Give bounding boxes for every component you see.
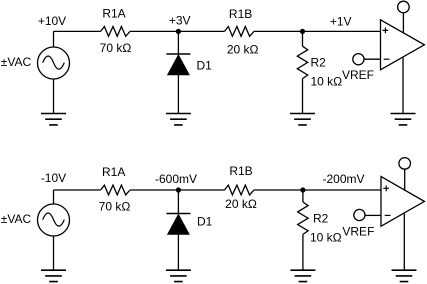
- wire top AC source stub: [53, 31, 55, 47]
- op-amp U1 top: [381, 20, 425, 70]
- svg-text:20 kΩ: 20 kΩ: [227, 43, 259, 57]
- resistor R1A top: [101, 27, 130, 37]
- wire diode D1 bottom to ground: [177, 235, 179, 271]
- resistor R1B bottom: [225, 185, 254, 195]
- svg-text:70 kΩ: 70 kΩ: [100, 41, 132, 55]
- svg-text:-600mV: -600mV: [155, 172, 197, 186]
- resistor R2 bottom: [298, 202, 308, 234]
- AC source VAC top: [38, 47, 70, 79]
- ground bottom diode: [166, 270, 191, 281]
- wire VREF terminal to op-amp top: [364, 58, 381, 60]
- wire diode D1 top to ground: [177, 75, 179, 114]
- op-amp U2 bottom: [381, 177, 424, 227]
- ground bottom op-amp: [392, 270, 417, 281]
- ground top AC source: [41, 114, 66, 125]
- svg-text:R1A: R1A: [102, 7, 125, 21]
- terminal output top: [398, 1, 410, 13]
- resistor R2 top: [297, 46, 307, 78]
- svg-text:D1: D1: [197, 215, 213, 229]
- wire output terminal to op-amp bottom: [404, 169, 406, 191]
- node +1V junction dot: [300, 29, 305, 34]
- svg-text:±VAC: ±VAC: [1, 212, 32, 226]
- svg-text:R1A: R1A: [102, 165, 125, 179]
- ground bottom R2: [290, 270, 315, 281]
- wire bottom AC source to ground: [53, 236, 55, 270]
- wire node to resistor R2 top: [302, 31, 304, 46]
- resistor R1A bottom: [101, 185, 130, 195]
- svg-text:-10V: -10V: [41, 171, 66, 185]
- svg-text:±VAC: ±VAC: [1, 55, 32, 69]
- wire node to resistor R2 bottom: [302, 190, 304, 202]
- svg-text:VREF: VREF: [342, 225, 374, 239]
- node -200mV junction dot: [300, 187, 305, 192]
- svg-text:20 kΩ: 20 kΩ: [225, 197, 257, 211]
- wire top AC source to ground: [53, 79, 55, 114]
- svg-text:R1B: R1B: [229, 7, 252, 21]
- svg-text:+3V: +3V: [169, 14, 191, 28]
- wire op-amp bottom to ground: [403, 213, 405, 271]
- wire bottom AC source stub: [53, 190, 55, 204]
- terminal VREF bottom: [354, 209, 365, 220]
- resistor R1B top: [225, 27, 254, 37]
- svg-text:R1B: R1B: [229, 164, 252, 178]
- diode D1 top: [166, 54, 190, 75]
- node -600mV junction dot: [176, 187, 181, 192]
- wire node to diode D1 bottom: [177, 190, 179, 214]
- svg-text:+1V: +1V: [330, 14, 352, 28]
- node +3V junction dot: [176, 29, 181, 34]
- svg-text:D1: D1: [197, 59, 213, 73]
- wire resistor R2 bottom to ground: [302, 234, 304, 270]
- diode D1 bottom: [166, 214, 190, 235]
- wire node to diode D1 top: [177, 31, 179, 54]
- ground top op-amp: [391, 114, 416, 125]
- ground bottom AC source: [41, 270, 66, 281]
- wire bottom main horizontal: [54, 189, 382, 191]
- AC source VAC bottom: [38, 204, 70, 236]
- svg-text:+10V: +10V: [38, 14, 66, 28]
- wire resistor R2 top to ground: [302, 79, 304, 114]
- svg-text:VREF: VREF: [342, 68, 374, 82]
- svg-text:10 kΩ: 10 kΩ: [310, 231, 342, 245]
- ground top R2: [290, 114, 315, 125]
- wire output terminal to op-amp top: [402, 13, 404, 33]
- wire VREF terminal to op-amp bottom: [365, 214, 381, 216]
- terminal output bottom: [399, 158, 411, 170]
- svg-text:R2: R2: [311, 55, 327, 69]
- wire op-amp top to ground: [402, 57, 404, 114]
- svg-text:-200mV: -200mV: [322, 172, 364, 186]
- terminal VREF top: [353, 54, 364, 65]
- svg-text:10 kΩ: 10 kΩ: [311, 75, 343, 89]
- svg-text:70 kΩ: 70 kΩ: [99, 200, 131, 214]
- ground top diode: [166, 114, 191, 125]
- svg-text:R2: R2: [313, 211, 329, 225]
- wire top main horizontal: [54, 30, 381, 32]
